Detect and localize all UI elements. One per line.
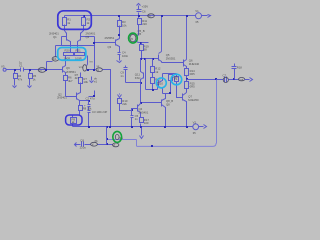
svg-text:vf: vf: [113, 143, 115, 147]
resistor R7: [80, 73, 82, 78]
svg-text:MJE350: MJE350: [188, 98, 199, 102]
svg-text:C2 47u: C2 47u: [86, 96, 95, 100]
svg-text:220: 220: [142, 22, 147, 26]
svg-text:0R5: 0R5: [190, 72, 196, 76]
resistor R13: [152, 73, 154, 78]
node probe ellipse vfb: [113, 143, 119, 147]
arrow feedback left: [75, 143, 77, 147]
svg-text:2N5551: 2N5551: [166, 56, 176, 60]
svg-text:1u: 1u: [19, 61, 23, 65]
transistor Q9 input: [62, 67, 64, 73]
wire Q4 base: [132, 109, 138, 111]
wire input line: [7, 69, 21, 71]
resistor R16: [169, 75, 173, 81]
capacitor C8 bottom: [81, 142, 83, 147]
voltage source V2 bottom: [193, 124, 199, 130]
wire probe riser: [55, 46, 57, 57]
ground flag bus: [141, 128, 143, 136]
annotation cyan rounded rect: [58, 48, 86, 61]
transistor Q6 driver: [183, 60, 185, 67]
svg-text:2N5401: 2N5401: [57, 96, 67, 100]
junction input nodes: [45, 69, 47, 71]
svg-text:4k7: 4k7: [68, 79, 73, 83]
annotation blue rounded rect top: [58, 11, 92, 30]
voltage source V1 top: [196, 13, 202, 19]
svg-text:Q10: Q10: [158, 82, 164, 86]
flag up arrow top: [137, 4, 141, 6]
wire rail drop VAS column: [138, 13, 140, 19]
wire top rail: [65, 15, 196, 17]
annotation cyan circle bias2: [171, 74, 182, 85]
transistor Q5 VAS: [158, 55, 160, 61]
svg-text:Q8: Q8: [166, 102, 170, 106]
capacitor C3 feedback: [88, 110, 91, 112]
resistor R15: [185, 82, 189, 89]
node probe ellipse out: [239, 78, 245, 81]
node probe ellipse ib: [52, 57, 59, 61]
probe ellipse VAS: [130, 34, 136, 41]
node probe ellipse in: [38, 68, 46, 73]
svg-text:vm: vm: [79, 65, 83, 69]
svg-text:MJE340: MJE340: [189, 62, 200, 66]
port input circle: [3, 68, 6, 71]
wire feedback node: [80, 100, 89, 102]
resistor R17: [140, 118, 144, 123]
wire VAS node: [139, 42, 149, 44]
resistor R9 in blue box: [71, 118, 77, 124]
svg-text:C8: C8: [80, 138, 84, 142]
transistor Q8: [141, 102, 162, 104]
capacitor C9 comp: [125, 66, 127, 68]
svg-text:R21: R21: [76, 49, 82, 53]
junction speaker: [233, 78, 235, 80]
resistor tail left (cyan box): [64, 53, 74, 56]
node probe ellipse ic: [96, 68, 102, 72]
transistor Q2 LTP right: [80, 33, 82, 41]
svg-text:2N5401: 2N5401: [139, 110, 149, 114]
junction Q11 emitter: [140, 82, 142, 84]
capacitor C5: [131, 111, 133, 116]
junction R3 node: [118, 34, 120, 36]
wire Q10 base: [158, 85, 159, 90]
wire feedback return riser: [216, 80, 218, 144]
ground flag input1: [13, 86, 17, 88]
svg-text:35: 35: [195, 20, 199, 24]
wire bias tap riser: [145, 59, 147, 90]
svg-text:220u: 220u: [80, 146, 87, 150]
junction output tap: [186, 76, 188, 82]
resistor R10: [118, 99, 122, 104]
wire base bus: [56, 45, 95, 47]
svg-text:1n: 1n: [120, 74, 124, 78]
annotation green ellipse VAS: [129, 33, 138, 43]
transistor Q11: [143, 73, 145, 79]
annotation cyan circle bias1: [156, 78, 166, 88]
resistor R8: [79, 106, 83, 111]
wire ground bus: [137, 143, 216, 146]
svg-text:Q3: Q3: [108, 45, 112, 49]
node probe ellipse ifb: [91, 142, 98, 146]
probe oval mirror: [87, 65, 88, 66]
resistor R14: [185, 69, 189, 76]
junction bias: [169, 92, 171, 94]
junction mirror node: [87, 69, 89, 71]
svg-text:Q2: Q2: [86, 35, 90, 39]
wire rail drop Q5 collector: [161, 16, 163, 52]
svg-text:e1: e1: [94, 80, 98, 84]
ground flag C4: [117, 61, 122, 63]
capacitor C4: [118, 52, 121, 54]
svg-text:47k: 47k: [18, 77, 23, 81]
junction R10: [131, 109, 133, 111]
speaker load: [234, 64, 236, 67]
svg-text:68: 68: [144, 48, 148, 52]
svg-text:ifb: ifb: [95, 139, 98, 143]
net flag arrow out: [245, 79, 250, 81]
svg-text:C6: C6: [142, 10, 146, 14]
wire bias feed: [146, 89, 158, 91]
svg-text:100: 100: [144, 121, 149, 125]
ground flag mid: [91, 77, 93, 81]
wire bias top: [163, 73, 177, 75]
wire feedback lower: [75, 144, 81, 146]
wire rail drop R3 column: [119, 16, 121, 21]
sense probe in green circle: [115, 135, 119, 140]
transistor Q2b feedback: [76, 93, 78, 100]
junction feedback: [88, 100, 90, 102]
resistor R1 (in blue box): [63, 18, 67, 26]
resistor R12: [152, 59, 154, 67]
svg-text:10k: 10k: [83, 80, 88, 84]
svg-text:35: 35: [193, 131, 197, 135]
svg-text:1n: 1n: [135, 117, 139, 121]
resistor tail right (cyan box): [75, 53, 85, 56]
svg-text:R18: R18: [237, 65, 243, 69]
net flag arrow V2: [199, 126, 204, 128]
resistor R3 top: [118, 21, 122, 27]
svg-text:2N5551: 2N5551: [105, 36, 115, 40]
svg-text:22k: 22k: [122, 102, 127, 106]
wire LTP right base drop: [94, 37, 96, 70]
wire mirror out: [88, 69, 96, 71]
svg-text:10k: 10k: [122, 23, 127, 27]
svg-text:+35V: +35V: [142, 5, 149, 9]
svg-text:KSC: KSC: [135, 76, 141, 80]
svg-text:Q5: Q5: [138, 32, 142, 36]
resistor R4 shunt: [14, 70, 16, 74]
svg-text:if: if: [92, 142, 94, 146]
svg-text:out: out: [239, 78, 243, 82]
resistor R6: [64, 76, 68, 81]
capacitor C7 output probed: [224, 77, 226, 83]
svg-text:V2: V2: [193, 120, 197, 124]
resistor R2 (in blue box): [82, 18, 86, 26]
wire feedback bottom: [136, 140, 138, 147]
transistor Q3 cascode: [115, 40, 117, 46]
resistor R11b: [140, 45, 144, 51]
junction fb riser: [106, 143, 108, 145]
transistor Q4: [137, 105, 139, 112]
wire input node riser: [46, 62, 48, 70]
node probe ellipse rail: [148, 14, 155, 18]
resistor R5 shunt: [29, 70, 31, 74]
svg-text:P1: P1: [174, 77, 178, 81]
svg-text:V1: V1: [195, 9, 199, 13]
svg-text:0R5: 0R5: [190, 85, 196, 89]
svg-text:C3 100n NP: C3 100n NP: [92, 110, 107, 114]
transistor Q7: [182, 94, 184, 101]
svg-text:R20: R20: [65, 49, 71, 53]
transistor Q1 LTP left: [66, 33, 68, 41]
svg-text:C7: C7: [223, 74, 227, 78]
capacitor C6 rail: [137, 9, 142, 11]
svg-text:R8 22k: R8 22k: [83, 107, 92, 111]
resistor R11: [138, 19, 142, 25]
wire C9 to Q11: [126, 82, 141, 84]
svg-text:100n: 100n: [122, 54, 129, 58]
capacitor C1 series: [20, 68, 22, 72]
transistor Q10 bias: [158, 81, 160, 88]
wire output node: [187, 79, 224, 81]
ground flag R10 top: [119, 94, 121, 95]
annotation blue rounded rect bottom: [66, 115, 82, 125]
wire LTP left base drop: [61, 37, 63, 46]
wire bias bottom: [163, 93, 171, 95]
wire Q5 emitter to Q6 base: [162, 62, 184, 64]
capacitor C2 feedback: [88, 101, 90, 105]
svg-text:4k7: 4k7: [75, 76, 80, 80]
svg-text:ib1: ib1: [53, 57, 57, 61]
trimmer in cyan circle: [176, 74, 178, 77]
net flag arrow V1: [202, 15, 208, 17]
svg-text:V3: V3: [1, 65, 5, 69]
junction rail dots: [83, 15, 85, 17]
wire rail drop Q6 collector: [186, 16, 188, 60]
annotation green circle bottom: [113, 131, 122, 142]
wire negative bus: [73, 126, 193, 128]
svg-text:Q1: Q1: [53, 35, 57, 39]
ground flag input2: [28, 86, 32, 88]
wire Q5 base: [142, 58, 159, 60]
wires tail stubs: [70, 48, 72, 53]
